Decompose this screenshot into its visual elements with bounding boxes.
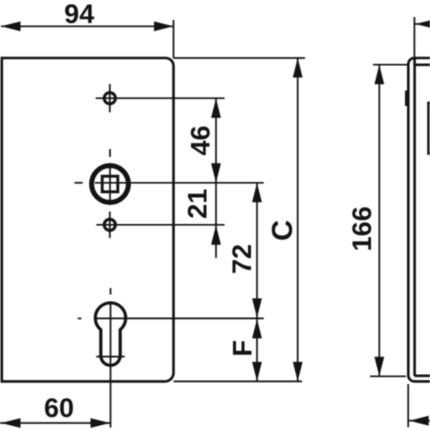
extension line 166 bottom (370, 375, 406, 377)
side view inner bottom edge (415, 374, 430, 377)
centerline horizontal dash left of follower (75, 182, 83, 184)
extension line 166 top (373, 64, 408, 66)
tick line at cylinder bottom arc center (96, 356, 124, 358)
square spindle hole (102, 176, 118, 192)
dimension C arrow down (293, 362, 303, 382)
top right depth dimension line (414, 23, 430, 25)
svg-text:C: C (267, 220, 299, 241)
dimension 166 arrow up (374, 65, 384, 85)
dimension 94 arrow right (154, 21, 174, 31)
extension line plate bottom right (174, 380, 303, 382)
svg-text:46: 46 (186, 125, 216, 155)
dimension 46-21 line (215, 98, 217, 258)
dimension 72 arrow up (252, 183, 262, 203)
plate outline (front view) (2, 58, 174, 381)
extension line bottom right depth (407, 384, 409, 427)
dimension 166 arrow down (374, 357, 384, 377)
svg-text:21: 21 (182, 189, 212, 219)
centerline horizontal hole H1 / extension line 46 top (96, 97, 225, 99)
extension line top right depth (413, 17, 415, 60)
dimension 46 arrow down / 21 top (211, 163, 221, 183)
centerline horizontal follower / extension line 21-72 top (95, 182, 264, 184)
extension line plate top right (174, 57, 306, 59)
svg-text:94: 94 (64, 0, 94, 29)
centerline horizontal dash left of cylinder hole (78, 317, 82, 319)
dimension F arrow up (252, 319, 262, 339)
centerline vertical follower (109, 163, 111, 205)
centerline vertical cylinder hole down to 60 dim (110, 304, 112, 428)
dimension 72-F line (256, 183, 258, 382)
centerline vertical hole H2 (109, 212, 111, 238)
centerline vertical dash above follower (109, 149, 111, 157)
svg-text:60: 60 (44, 393, 74, 423)
svg-text:F: F (228, 340, 258, 357)
dimension 46 arrow up (211, 98, 221, 118)
side view face bump (405, 91, 407, 107)
dimension 94 line (1, 25, 174, 27)
centerline vertical dash above cylinder hole (110, 288, 112, 295)
follower hole U1 (square spindle) (92, 166, 129, 203)
side view inner component box (428, 103, 430, 154)
dimension 21 arrow up from below (211, 225, 221, 245)
dimension 60 arrow right (91, 418, 111, 428)
side view inner face line (413, 58, 416, 376)
dimension C arrow up (293, 58, 303, 78)
side view outer profile (408, 58, 430, 381)
dimension 166 line (378, 65, 380, 377)
hole H1 top screw hole (104, 93, 115, 104)
centerline vertical hole H1 (109, 84, 111, 112)
dimension 60 arrow left (1, 418, 21, 428)
dimension 60 line (0, 422, 110, 424)
bottom right depth arrow (409, 416, 429, 426)
dimension C line (297, 58, 299, 381)
top right depth arrow (415, 19, 430, 29)
hole H2 lower screw hole (104, 219, 115, 230)
bottom right depth dimension line (408, 420, 430, 422)
dimension F arrow down (252, 362, 262, 382)
svg-text:72: 72 (227, 244, 257, 274)
centerline horizontal hole H2 / extension line 21 bottom (96, 224, 224, 226)
dimension 94 arrow left (1, 21, 21, 31)
euro profile cylinder hole (95, 303, 125, 365)
centerline horizontal cylinder hole / extension line 72-F (96, 317, 264, 319)
svg-text:166: 166 (347, 206, 377, 251)
dimension 72 arrow down (252, 298, 262, 318)
extension line dim 94 right (173, 20, 175, 58)
side view inner top edge (415, 64, 430, 67)
